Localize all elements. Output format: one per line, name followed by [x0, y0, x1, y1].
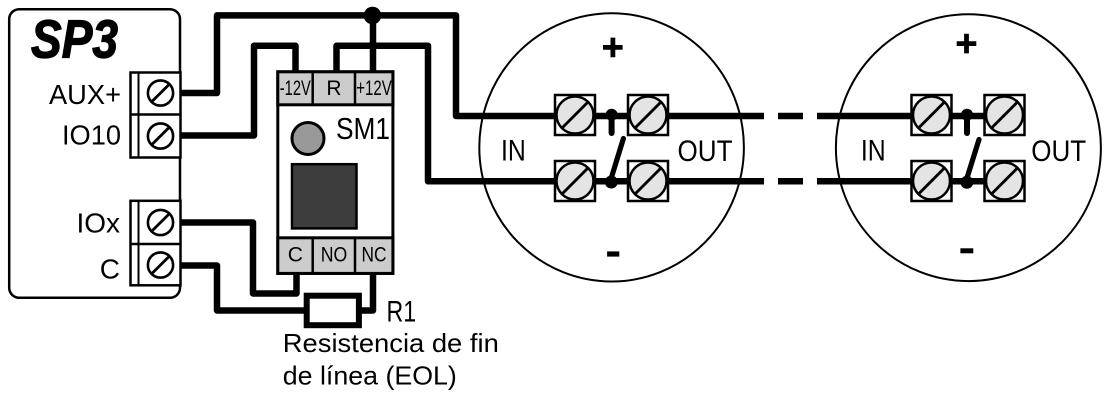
detector1 screw square OUT top [628, 95, 668, 135]
module SM1 top terminal row [278, 72, 393, 105]
node junction dot on + net [364, 7, 382, 25]
svg-text:IN: IN [501, 135, 526, 168]
detector2 screw square OUT bottom [985, 161, 1025, 201]
svg-text:IO10: IO10 [62, 120, 121, 151]
svg-text:R1: R1 [387, 295, 417, 328]
dashed wire top between detectors [778, 113, 803, 120]
svg-text:de línea (EOL): de línea (EOL) [283, 361, 457, 391]
resistor R1 body [307, 296, 359, 326]
detector1 plus sign [603, 38, 623, 58]
svg-text:R: R [326, 77, 341, 100]
detector2 contact stub [964, 115, 970, 133]
detector2 plus sign [957, 34, 977, 54]
module SM1 box [278, 72, 393, 274]
wire IO10 to SM1 -12V [179, 46, 296, 136]
svg-text:AUX+: AUX+ [49, 79, 121, 110]
detector1 minus sign [607, 251, 619, 256]
wire AUX+ to detector1 IN top (net +) [179, 15, 764, 116]
screw terminal C [148, 252, 173, 277]
wire C to resistor R1 left [179, 266, 307, 311]
top row divider 2 [354, 72, 357, 105]
detector1 top contact dot [606, 109, 618, 121]
detector1 screw square OUT bottom [628, 161, 668, 201]
terminal block IOx/C divider [131, 243, 181, 246]
svg-text:NC: NC [362, 243, 387, 266]
detector1 bottom contact dot [605, 176, 618, 189]
terminal block IOx/C [131, 201, 181, 285]
detector2 switch lever [966, 140, 979, 181]
detector 2 circle [836, 14, 1101, 281]
detector2 top contact dot [961, 109, 973, 121]
svg-text:SP3: SP3 [31, 10, 118, 70]
svg-text:NO: NO [321, 243, 348, 266]
screw terminal AUX+ [148, 80, 173, 105]
LED indicator on SM1 [292, 123, 324, 155]
wire detector2 IN bottom [817, 178, 1025, 185]
detector1 switch lever [611, 139, 624, 181]
detector1 contact stub [609, 115, 615, 133]
terminal block AUX+/IO10 inner strip [138, 73, 140, 158]
module SM1 bottom terminal row [278, 238, 393, 274]
detector2 screw square IN bottom [912, 161, 952, 201]
bottom row divider 2 [354, 238, 357, 274]
svg-text:-12V: -12V [280, 77, 311, 100]
relay body dark square [292, 164, 357, 228]
screw terminal IO10 [148, 123, 173, 148]
svg-text:OUT: OUT [678, 135, 733, 168]
svg-text:Resistencia de fin: Resistencia de fin [283, 328, 499, 358]
screw terminal IOx [148, 210, 173, 235]
bottom row divider 1 [311, 238, 314, 274]
svg-text:OUT: OUT [1031, 135, 1086, 168]
svg-text:SM1: SM1 [336, 111, 390, 146]
detector1 screw square IN top [555, 95, 595, 135]
dashed wire bottom between detectors [778, 178, 803, 185]
wire IOx to SM1 C [179, 223, 297, 294]
svg-text:+12V: +12V [356, 77, 392, 100]
detector1 screw square IN bottom [555, 161, 595, 201]
SP3 panel box [9, 9, 180, 298]
wire SM1 R to detector1 IN bottom [337, 46, 765, 182]
svg-text:C: C [288, 243, 303, 266]
detector2 minus sign [960, 248, 973, 253]
terminal block AUX+/IO10 [131, 73, 181, 158]
wire branch from node to SM1 +12V [370, 15, 377, 76]
detector2 screw square OUT top [985, 95, 1025, 135]
svg-text:IN: IN [861, 135, 886, 168]
wire detector2 IN top [817, 113, 1025, 120]
detector2 screw square IN top [912, 95, 952, 135]
wire resistor R1 right to SM1 NC [359, 270, 373, 311]
svg-text:C: C [100, 254, 120, 285]
svg-text:IOx: IOx [76, 208, 120, 239]
detector 1 circle [479, 13, 744, 281]
detector2 bottom contact dot [960, 176, 973, 189]
top row divider 1 [311, 72, 314, 105]
terminal block IOx/C inner strip [138, 201, 140, 285]
terminal block AUX+/IO10 divider [131, 113, 181, 116]
